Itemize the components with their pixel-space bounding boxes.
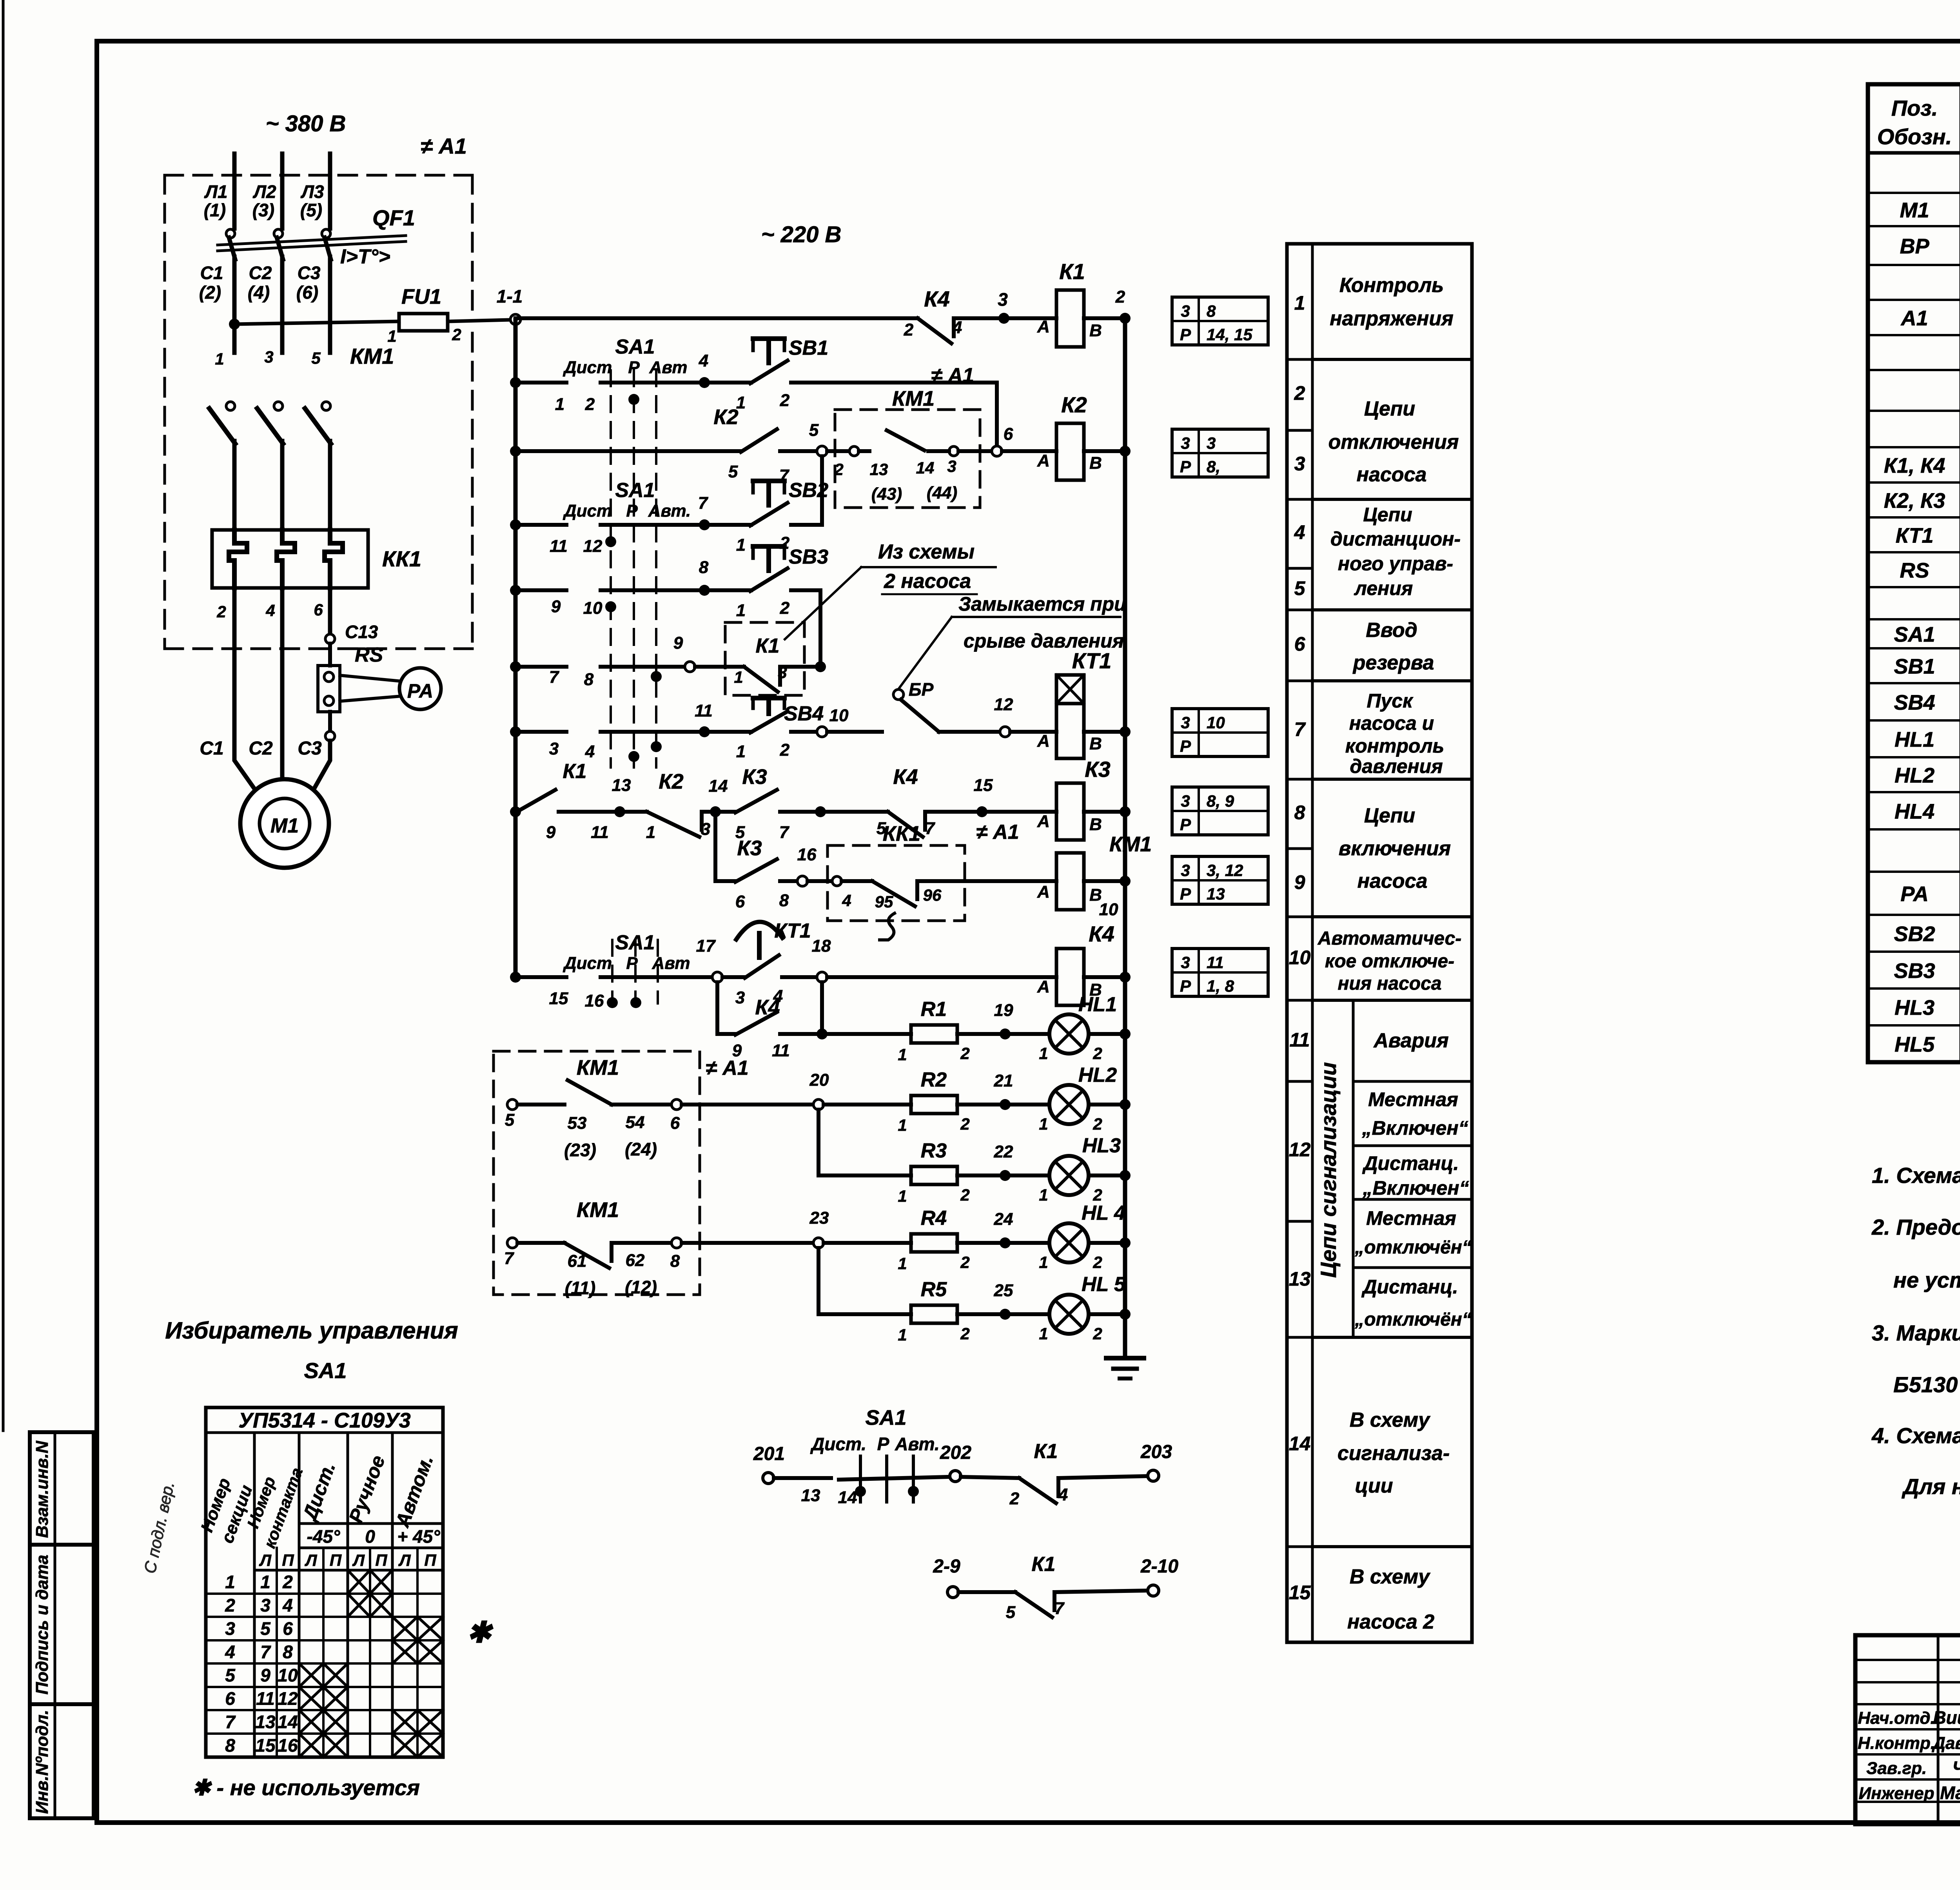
svg-text:HL3: HL3	[1082, 1134, 1121, 1157]
svg-text:4: 4	[952, 318, 962, 337]
svg-text:3: 3	[264, 348, 273, 366]
svg-text:1: 1	[1039, 1186, 1048, 1204]
terminal 2-9	[947, 1587, 958, 1598]
node tap on phase 1	[229, 319, 240, 330]
svg-text:5: 5	[505, 1110, 515, 1130]
svg-text:3: 3	[1294, 453, 1305, 475]
wire shunt to C3	[328, 712, 332, 731]
svg-text:2: 2	[282, 1572, 293, 1592]
right bus wire	[1123, 318, 1127, 1357]
svg-text:УП5314 - С109У3: УП5314 - С109У3	[238, 1409, 410, 1432]
svg-text:14, 15: 14, 15	[1207, 325, 1252, 344]
svg-text:Р: Р	[1180, 977, 1191, 995]
svg-text:1: 1	[387, 327, 396, 345]
svg-text:К3: К3	[1085, 757, 1111, 782]
svg-text:Р: Р	[628, 358, 640, 377]
dashed box A1 power block	[165, 174, 472, 177]
junction rung6 drop	[815, 661, 826, 672]
thermal relay KK1 heaters	[212, 530, 368, 588]
svg-text:6: 6	[314, 600, 323, 619]
wire 201	[774, 1476, 831, 1480]
svg-text:Контроль: Контроль	[1339, 274, 1444, 297]
junction rung10-bus	[1120, 972, 1131, 983]
junction rung8 mid	[815, 806, 826, 817]
svg-text:1: 1	[1039, 1044, 1048, 1063]
svg-text:П: П	[330, 1551, 342, 1569]
wire rung10	[515, 975, 566, 979]
dashed box KK1 aux	[828, 845, 965, 921]
svg-text:22: 22	[994, 1142, 1013, 1161]
svg-text:не устанавливается.: не устанавливается.	[1893, 1268, 1960, 1292]
svg-text:1-1: 1-1	[497, 286, 523, 307]
svg-text:Р: Р	[1180, 737, 1191, 755]
resistor R5	[818, 1312, 911, 1316]
svg-text:15: 15	[974, 776, 993, 795]
svg-text:5: 5	[728, 462, 738, 481]
svg-text:Дистанц.: Дистанц.	[1362, 1152, 1459, 1174]
svg-text:С13: С13	[345, 622, 378, 642]
zone number column line	[1311, 244, 1314, 1642]
contact KK1 95-96	[808, 879, 832, 883]
svg-text:Л: Л	[259, 1551, 272, 1569]
svg-text:КК1: КК1	[382, 546, 421, 571]
svg-text:2: 2	[960, 1115, 969, 1133]
svg-text:(2): (2)	[199, 282, 221, 303]
svg-text:4: 4	[282, 1595, 293, 1616]
ammeter PA	[399, 668, 441, 709]
wire to node 20	[682, 1103, 813, 1106]
terminal 2-10	[1148, 1585, 1159, 1596]
svg-text:Вишневский: Вишневский	[1933, 1707, 1960, 1728]
svg-text:12: 12	[1289, 1139, 1311, 1161]
svg-text:К1, К4: К1, К4	[1884, 454, 1945, 477]
svg-text:18: 18	[812, 936, 831, 956]
pushbutton SB2	[704, 523, 751, 527]
svg-text:К1: К1	[1034, 1440, 1058, 1463]
svg-text:11: 11	[550, 537, 568, 556]
svg-text:203: 203	[1140, 1442, 1172, 1462]
svg-text:11: 11	[256, 1689, 275, 1709]
svg-text:Чаруева: Чаруева	[1953, 1758, 1960, 1778]
svg-text:12: 12	[994, 695, 1013, 714]
svg-text:дистанцион-: дистанцион-	[1330, 528, 1461, 550]
svg-text:Авт.: Авт.	[648, 501, 691, 521]
svg-text:9: 9	[673, 633, 683, 653]
svg-text:2: 2	[216, 602, 226, 621]
svg-text:3: 3	[225, 1618, 235, 1639]
wire RS to ammeter	[340, 675, 401, 681]
svg-text:2: 2	[904, 320, 914, 339]
svg-text:Взам.инв.N: Взам.инв.N	[33, 1440, 52, 1538]
svg-text:1: 1	[260, 1572, 270, 1592]
junction rung7	[510, 726, 521, 737]
contact KM1 53-54	[517, 1103, 564, 1106]
terminal 203	[1148, 1470, 1159, 1481]
svg-text:Л3: Л3	[300, 181, 324, 202]
stamp boxes left	[30, 1432, 94, 1818]
svg-text:(24): (24)	[625, 1139, 657, 1159]
svg-text:Пуск: Пуск	[1367, 690, 1414, 712]
svg-text:4: 4	[842, 891, 851, 910]
svg-text:2-9: 2-9	[933, 1556, 960, 1577]
svg-text:(44): (44)	[927, 483, 957, 502]
junction rung8-bus	[1120, 806, 1131, 817]
junction rung3-bus	[1120, 446, 1131, 457]
node 24	[1000, 1237, 1011, 1248]
svg-text:1: 1	[1039, 1115, 1048, 1133]
contactor KM1 main contacts	[226, 402, 235, 410]
svg-text:R2: R2	[921, 1068, 947, 1091]
svg-text:7: 7	[549, 667, 560, 687]
svg-text:2: 2	[834, 460, 843, 479]
wire node18 to K4 coil	[827, 975, 1056, 979]
wire node20 down to R3	[817, 1110, 820, 1175]
wire node10 to BP	[827, 730, 882, 734]
svg-text:включения: включения	[1339, 837, 1451, 860]
contact K1 rung6	[695, 665, 744, 669]
contactor coil KM1	[1056, 853, 1084, 910]
svg-text:1: 1	[646, 823, 655, 842]
svg-text:6: 6	[283, 1618, 293, 1639]
terminal 6	[671, 1099, 682, 1110]
svg-text:Р: Р	[1180, 885, 1191, 903]
svg-text:SВ1: SВ1	[789, 337, 828, 359]
svg-text:3: 3	[1181, 302, 1190, 320]
wire C3 to motor	[311, 741, 330, 794]
svg-text:Авт: Авт	[649, 358, 688, 377]
junction rung5	[510, 585, 521, 596]
svg-text:2: 2	[1115, 287, 1125, 307]
svg-text:3: 3	[1181, 792, 1190, 810]
svg-text:(1): (1)	[204, 200, 226, 220]
ref table K2	[1172, 429, 1268, 477]
dashed box K1 aux	[725, 622, 804, 695]
svg-text:8: 8	[283, 1642, 293, 1662]
svg-text:Нач.отд.: Нач.отд.	[1858, 1709, 1935, 1728]
svg-text:А1: А1	[1900, 307, 1928, 330]
svg-text:С3: С3	[298, 738, 322, 759]
svg-text:95: 95	[875, 892, 893, 911]
terminal 7	[507, 1238, 517, 1248]
svg-text:(43): (43)	[871, 484, 902, 504]
svg-text:HL1: HL1	[1078, 993, 1117, 1016]
title block left grid	[1855, 1659, 1960, 1661]
svg-text:1. Схема выполнена для блоков: 1. Схема выполнена для блоков Б5130 - 18…	[1872, 1163, 1960, 1188]
wire fuse to node 1-1	[448, 320, 510, 321]
wire phase L1 stub	[232, 154, 237, 229]
svg-text:SА1: SА1	[615, 931, 655, 954]
svg-text:В: В	[1089, 734, 1102, 753]
svg-text:А: А	[1037, 812, 1050, 831]
svg-text:24: 24	[994, 1210, 1013, 1229]
node 9	[685, 662, 695, 672]
node 23	[813, 1238, 824, 1248]
svg-text:R4: R4	[921, 1207, 947, 1230]
svg-text:3: 3	[1181, 861, 1190, 880]
node C13	[325, 634, 335, 644]
junction rung7-bus	[1120, 726, 1131, 737]
svg-text:„отключён“: „отключён“	[1354, 1309, 1472, 1330]
svg-text:К4: К4	[924, 287, 950, 311]
selector angle row	[299, 1547, 443, 1549]
contact K1 aux 2-9	[958, 1590, 1015, 1594]
node 17	[712, 972, 722, 982]
svg-text:+ 45°: + 45°	[397, 1526, 440, 1547]
resistor R3	[818, 1174, 911, 1177]
svg-text:Из схемы: Из схемы	[878, 541, 975, 563]
junction rung8	[510, 806, 521, 817]
svg-text:Л: Л	[305, 1551, 318, 1569]
svg-text:Дист: Дист	[563, 954, 612, 973]
svg-text:201: 201	[753, 1444, 785, 1464]
svg-text:≠ А1: ≠ А1	[976, 821, 1019, 843]
node 18	[817, 972, 827, 982]
svg-text:А: А	[1037, 731, 1050, 751]
svg-text:3: 3	[998, 289, 1008, 310]
svg-text:Цепи сигнализации: Цепи сигнализации	[1316, 1062, 1341, 1278]
svg-text:1, 8: 1, 8	[1207, 977, 1234, 995]
contact KM1 61-62	[517, 1241, 564, 1245]
svg-text:Л: Л	[398, 1551, 411, 1569]
svg-text:(6): (6)	[296, 282, 318, 303]
relay coil K3	[987, 810, 1056, 814]
svg-text:6: 6	[670, 1114, 680, 1133]
svg-text:Замыкается при: Замыкается при	[958, 593, 1126, 615]
wire rung7	[515, 730, 566, 734]
svg-text:5: 5	[311, 349, 321, 367]
svg-text:✱ - не используется: ✱ - не используется	[192, 1775, 420, 1800]
svg-text:РА: РА	[407, 680, 433, 702]
svg-text:I>T°>: I>T°>	[340, 245, 390, 268]
svg-text:8: 8	[779, 891, 789, 910]
node 7	[699, 519, 710, 530]
svg-text:К1: К1	[1059, 259, 1085, 284]
svg-text:Л2: Л2	[252, 181, 276, 202]
svg-text:(12): (12)	[625, 1277, 657, 1297]
svg-text:Обозн.: Обозн.	[1877, 124, 1952, 149]
terminal 5	[507, 1099, 517, 1110]
svg-text:2: 2	[1093, 1115, 1102, 1133]
svg-text:Давлианидзе: Давлианидзе	[1931, 1734, 1960, 1753]
parts table row lines	[1868, 192, 1960, 194]
svg-text:2. Предохранитель FU1 на бло: 2. Предохранитель FU1 на блоках Б5130 - …	[1871, 1215, 1960, 1239]
svg-text:М1: М1	[1900, 199, 1929, 222]
svg-text:1: 1	[898, 1326, 907, 1344]
svg-text:2-10: 2-10	[1140, 1556, 1178, 1577]
wire SB1 to node6	[791, 383, 997, 446]
svg-text:62: 62	[626, 1251, 645, 1270]
svg-text:ВР: ВР	[1900, 235, 1929, 258]
svg-text:13: 13	[255, 1712, 276, 1732]
svg-text:П: П	[375, 1551, 387, 1569]
svg-text:А: А	[1037, 977, 1050, 996]
node 25	[1000, 1309, 1011, 1320]
svg-text:8: 8	[1207, 302, 1216, 320]
svg-text:14: 14	[1289, 1433, 1311, 1455]
svg-text:R1: R1	[921, 998, 947, 1021]
svg-text:К2: К2	[1061, 392, 1087, 417]
svg-text:3: 3	[701, 820, 710, 839]
svg-text:14: 14	[916, 459, 935, 477]
svg-text:„Включен“: „Включен“	[1361, 1117, 1468, 1139]
wire rung4	[515, 523, 566, 527]
selector position dot rung2	[628, 394, 639, 405]
svg-text:6: 6	[1004, 424, 1013, 444]
wire node6 to K2 coil	[1002, 449, 1056, 453]
svg-text:А: А	[1037, 451, 1050, 470]
wire rung6	[515, 665, 566, 669]
svg-text:2: 2	[1294, 382, 1305, 404]
svg-text:1: 1	[215, 350, 224, 368]
wire node12 to KT1 coil	[1010, 730, 1056, 734]
svg-text:3. Маркировка в скобках отно: 3. Маркировка в скобках относится к блок…	[1872, 1320, 1960, 1345]
junction rung2	[510, 377, 521, 388]
svg-text:4: 4	[265, 601, 275, 620]
wire phase2 to motor	[280, 588, 285, 780]
parts table columns	[1960, 84, 1960, 1062]
svg-text:В схему: В схему	[1350, 1409, 1431, 1431]
svg-text:контроль: контроль	[1345, 735, 1444, 757]
selector SA1 aux bars	[859, 1456, 862, 1502]
svg-text:Дист: Дист	[563, 358, 612, 377]
svg-text:✱: ✱	[467, 1616, 494, 1649]
svg-text:SВ4: SВ4	[1894, 691, 1935, 715]
svg-text:61: 61	[568, 1252, 587, 1271]
svg-text:3: 3	[1181, 713, 1190, 732]
wire phase L3 stub	[328, 154, 332, 229]
node 16	[797, 876, 808, 886]
svg-text:13: 13	[612, 776, 631, 795]
ref table KT1	[1172, 709, 1268, 756]
svg-text:16: 16	[278, 1735, 298, 1756]
svg-text:5: 5	[1294, 577, 1306, 599]
svg-text:С1: С1	[200, 263, 223, 283]
svg-text:SА1: SА1	[865, 1406, 906, 1429]
node 12	[1000, 727, 1010, 737]
svg-text:С3: С3	[298, 263, 321, 283]
node 4	[699, 377, 710, 388]
wire phase L2 stub	[280, 154, 285, 229]
svg-text:5: 5	[809, 421, 819, 440]
svg-text:19: 19	[994, 1001, 1013, 1020]
svg-text:Инженер: Инженер	[1858, 1784, 1934, 1803]
lamp HL2	[1010, 1103, 1049, 1106]
svg-text:SВ2: SВ2	[1894, 922, 1935, 946]
ref table K1	[1172, 297, 1268, 345]
svg-text:2: 2	[225, 1595, 235, 1616]
junction rung6	[510, 661, 521, 672]
svg-text:8: 8	[699, 558, 709, 577]
svg-text:Р: Р	[626, 501, 638, 521]
svg-text:3: 3	[1207, 434, 1216, 452]
contact K2 rung8 NC	[625, 810, 647, 814]
selector position dot rung6	[651, 671, 662, 682]
node 20	[813, 1099, 824, 1110]
svg-text:Л1: Л1	[204, 181, 227, 202]
svg-text:1: 1	[898, 1116, 907, 1134]
svg-text:5: 5	[225, 1665, 236, 1685]
svg-text:КТ1: КТ1	[1072, 648, 1111, 673]
svg-text:15: 15	[549, 989, 568, 1008]
svg-text:QF1: QF1	[372, 205, 415, 230]
svg-text:Местная: Местная	[1366, 1207, 1456, 1229]
svg-text:SВ3: SВ3	[789, 546, 828, 568]
svg-text:1: 1	[898, 1254, 907, 1273]
svg-text:„Включен“: „Включен“	[1362, 1177, 1469, 1199]
svg-text:14: 14	[278, 1712, 298, 1732]
selector LP row	[254, 1569, 443, 1572]
svg-text:давления: давления	[1350, 755, 1443, 777]
svg-text:1: 1	[736, 742, 746, 761]
svg-text:4: 4	[1294, 521, 1305, 543]
selector SA1 column lines	[610, 370, 612, 767]
svg-text:Н.контр.: Н.контр.	[1858, 1734, 1935, 1753]
svg-text:ния насоса: ния насоса	[1338, 973, 1441, 994]
svg-text:7: 7	[504, 1249, 515, 1268]
svg-text:2: 2	[960, 1186, 969, 1204]
svg-text:насоса: насоса	[1357, 870, 1428, 892]
left bus wire	[514, 319, 518, 977]
ref table KM1	[1172, 856, 1268, 904]
svg-text:Цепи: Цепи	[1364, 804, 1415, 827]
relay coil K1	[1056, 290, 1084, 347]
svg-text:54: 54	[626, 1113, 645, 1132]
contact K3 rung9	[715, 879, 735, 883]
function zone table frame	[1287, 244, 1472, 1642]
contact K1 aux 201	[961, 1477, 1019, 1478]
svg-text:К4: К4	[893, 765, 918, 789]
svg-text:4: 4	[585, 742, 595, 761]
svg-text:8: 8	[1294, 802, 1305, 823]
svg-text:13: 13	[1289, 1268, 1311, 1290]
node 22	[1000, 1170, 1011, 1181]
svg-text:2 насоса: 2 насоса	[884, 570, 971, 593]
svg-text:8,: 8,	[1207, 457, 1220, 476]
svg-text:RS: RS	[355, 644, 383, 666]
time relay coil KT1	[1056, 675, 1084, 704]
zone signal rotated column	[1352, 1000, 1355, 1337]
svg-text:Дист: Дист	[563, 501, 612, 521]
svg-text:С2: С2	[249, 738, 273, 759]
svg-text:10: 10	[829, 706, 849, 725]
svg-text:-45°: -45°	[307, 1526, 340, 1547]
svg-text:2: 2	[960, 1044, 969, 1063]
selector position dots rung10	[607, 997, 618, 1008]
svg-text:14: 14	[709, 776, 728, 796]
wire rung5	[515, 588, 566, 592]
svg-text:≠ А1: ≠ А1	[706, 1057, 748, 1079]
svg-text:7: 7	[698, 493, 709, 513]
svg-text:Р: Р	[1180, 457, 1191, 476]
svg-text:К1: К1	[1032, 1553, 1056, 1576]
junction rung1-bus	[1120, 313, 1131, 324]
wire rung1	[515, 316, 918, 320]
svg-text:2: 2	[1093, 1324, 1102, 1343]
svg-text:0: 0	[365, 1526, 375, 1547]
svg-text:КТ1: КТ1	[774, 920, 811, 942]
title block frame	[1855, 1635, 1960, 1824]
svg-text:1: 1	[734, 668, 743, 686]
svg-text:Автоматичес-: Автоматичес-	[1318, 928, 1462, 949]
wire rung2	[515, 381, 566, 385]
svg-text:11: 11	[695, 701, 713, 720]
svg-text:9: 9	[260, 1665, 270, 1685]
dashed box KM1 aux rung3	[835, 410, 980, 508]
svg-text:Авт.: Авт.	[895, 1434, 939, 1454]
wire node18 down	[820, 982, 824, 1034]
svg-text:Для насоса 2 схема и пере: Для насоса 2 схема и перечень аналогичны…	[1902, 1474, 1960, 1499]
svg-text:SА1: SА1	[615, 479, 655, 502]
